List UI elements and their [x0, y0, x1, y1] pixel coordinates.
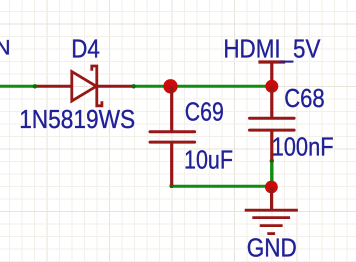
- svg-text:N: N: [0, 36, 11, 60]
- svg-text:C69: C69: [185, 99, 224, 127]
- wire: input net to diode D4 anode: [0, 85, 35, 88]
- wire: C69 bottom elbow to junction C (ground net): [172, 185, 272, 187]
- wire: diode D4 cathode to junction A: [133, 85, 172, 88]
- wire elbow below C69: [169, 184, 173, 188]
- junction A: [163, 79, 177, 93]
- svg-text:100nF: 100nF: [272, 133, 334, 161]
- svg-text:C68: C68: [284, 85, 325, 113]
- svg-text:10uF: 10uF: [184, 147, 233, 175]
- wire: C68 lower pin to junction C: [270, 160, 273, 186]
- pin-end node at diode cathode: [131, 84, 135, 88]
- svg-text:HDMI_5V: HDMI_5V: [223, 35, 321, 63]
- junction B: [265, 80, 278, 93]
- power flag HDMI_5V: [258, 62, 285, 86]
- svg-text:1N5819WS: 1N5819WS: [19, 106, 135, 134]
- pin-end node at diode anode: [33, 84, 37, 88]
- capacitor C68: [250, 86, 295, 160]
- junction C: [265, 181, 278, 194]
- wire: junction A to junction B (HDMI_5V net): [172, 85, 272, 88]
- svg-text:D4: D4: [71, 36, 100, 64]
- svg-text:GND: GND: [247, 235, 297, 262]
- ground symbol: [245, 187, 298, 234]
- pin-end node at C68 lower pin: [270, 159, 274, 163]
- capacitor C69: [150, 86, 195, 185]
- diode D4 (Schottky): [34, 66, 134, 106]
